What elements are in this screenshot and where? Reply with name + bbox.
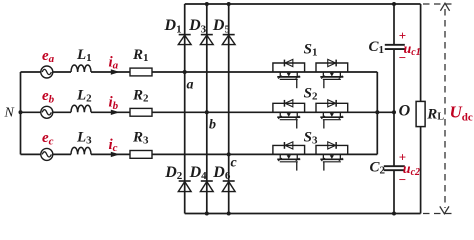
- label D3: [188, 17, 207, 35]
- label e_b: [42, 88, 55, 105]
- current arrow i_a: [111, 69, 120, 74]
- arrow U_dc top: [440, 3, 449, 11]
- wire capacitor branch lower: [393, 171, 395, 214]
- svg-text:c: c: [231, 155, 238, 170]
- wire phase c row: [21, 153, 378, 155]
- label e_a: [42, 48, 55, 65]
- node b junction: [205, 110, 209, 114]
- diode D5: [222, 35, 235, 45]
- diode D3: [200, 35, 213, 45]
- wire switch midpoint bus: [376, 72, 378, 154]
- wire dashed bottom rail extension: [423, 213, 454, 215]
- wire load branch lower: [420, 127, 422, 214]
- wire top DC rail: [185, 3, 421, 5]
- current arrow i_b: [111, 110, 120, 115]
- diode D2: [178, 181, 191, 192]
- junction top rail D3: [205, 2, 209, 6]
- label S2: [304, 86, 318, 103]
- label - of u_c2: [399, 172, 406, 187]
- source e_b (AC): [41, 106, 53, 118]
- junction switch bus at O row: [375, 110, 379, 114]
- label S3: [304, 130, 318, 147]
- label + of u_c2: [399, 150, 406, 165]
- capacitor C2: [384, 166, 405, 170]
- wire diode leg 2: [206, 4, 208, 214]
- svg-text:a: a: [187, 77, 194, 92]
- label u_c2: [403, 162, 420, 178]
- diode D4: [200, 181, 213, 192]
- wire capacitor branch upper: [393, 4, 395, 44]
- wire dashed U_dc line: [444, 9, 446, 208]
- resistor R2: [130, 108, 152, 116]
- wire dashed top rail extension: [423, 3, 454, 5]
- label D2: [164, 164, 183, 182]
- diode D6: [222, 181, 235, 192]
- label R_L: [426, 106, 444, 122]
- label + of u_c1: [399, 28, 406, 43]
- junction bottom rail D4: [205, 212, 209, 216]
- label i_a: [109, 54, 119, 71]
- svg-text:−: −: [399, 172, 406, 187]
- inductor L2: [71, 105, 91, 112]
- arrow U_dc bottom: [440, 206, 449, 213]
- junction cap branch top rail: [392, 2, 396, 6]
- source e_c (AC): [41, 148, 53, 160]
- node N junction: [19, 110, 23, 114]
- svg-text:−: −: [399, 50, 406, 65]
- svg-text:N: N: [4, 105, 15, 120]
- junction bottom rail D6: [227, 212, 231, 216]
- label e_c: [42, 130, 54, 147]
- transistor S3 left MOSFET: [273, 142, 305, 171]
- node a junction: [183, 70, 187, 74]
- label D5: [212, 17, 231, 35]
- label R3: [132, 129, 149, 146]
- label i_c: [109, 137, 118, 154]
- label D1: [164, 17, 182, 35]
- label c: [231, 155, 238, 170]
- wire diode leg 3: [228, 4, 230, 214]
- label C1: [369, 39, 385, 56]
- transistor S3 right MOSFET: [316, 142, 348, 171]
- label u_c1: [404, 42, 421, 58]
- label D6: [212, 164, 231, 182]
- wire phase a row: [21, 71, 378, 73]
- svg-text:b: b: [209, 117, 216, 132]
- wire capacitor branch middle: [393, 50, 395, 166]
- capacitor C1: [385, 45, 405, 49]
- current arrow i_c: [111, 152, 120, 157]
- label U_dc: [450, 103, 473, 124]
- resistor R1: [130, 68, 152, 76]
- label L3: [76, 129, 92, 146]
- source e_a (AC): [41, 66, 53, 78]
- label D4: [189, 164, 208, 182]
- label N: [4, 105, 15, 120]
- label a: [187, 77, 194, 92]
- inductor L1: [71, 65, 91, 72]
- node c junction: [227, 152, 231, 156]
- diode D1: [178, 35, 191, 45]
- label O: [399, 103, 411, 120]
- transistor S1 left MOSFET: [273, 59, 305, 88]
- label S1: [304, 42, 318, 59]
- label - of u_c1: [399, 50, 406, 65]
- label b: [209, 117, 216, 132]
- inductor L3: [71, 147, 91, 154]
- node O junction: [392, 110, 396, 114]
- wire diode leg 1: [184, 4, 186, 214]
- label L1: [76, 47, 92, 64]
- label C2: [370, 159, 386, 176]
- transistor S2 left MOSFET: [273, 100, 305, 129]
- transistor S2 right MOSFET: [316, 100, 348, 129]
- label R2: [132, 87, 149, 104]
- svg-text:O: O: [399, 103, 411, 120]
- junction top rail D5: [227, 2, 231, 6]
- junction cap branch bottom rail: [392, 212, 396, 216]
- label i_b: [109, 95, 119, 112]
- resistor R3: [130, 151, 152, 159]
- wire left neutral bus N: [20, 72, 22, 154]
- label L2: [76, 87, 92, 104]
- label R1: [132, 47, 149, 64]
- transistor S1 right MOSFET: [316, 59, 348, 88]
- wire phase b row: [21, 111, 395, 113]
- wire load branch upper: [420, 4, 422, 101]
- resistor R_L: [416, 101, 425, 126]
- wire bottom DC rail: [185, 213, 421, 215]
